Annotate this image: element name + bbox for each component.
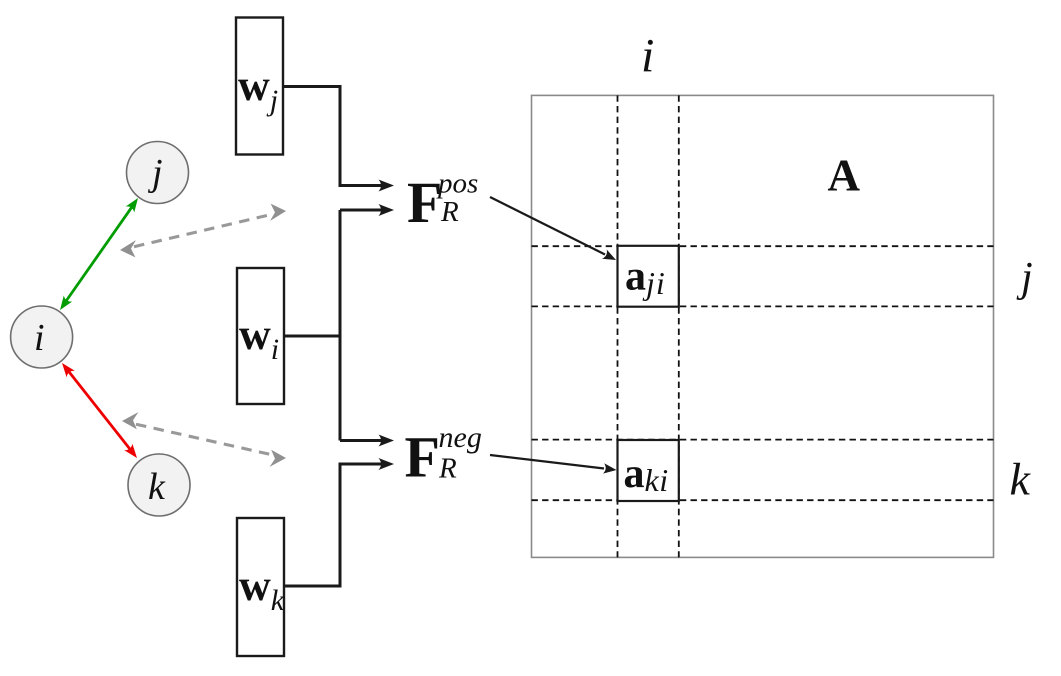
label F_R^pos	[407, 168, 478, 236]
matrix A outer border	[532, 95, 994, 557]
svg-text:pos: pos	[436, 168, 478, 200]
cell a_ji box	[618, 246, 679, 307]
green positive edge i-j double arrow	[60, 198, 138, 310]
embedding vector w_k rectangle	[237, 518, 285, 656]
svg-text:A: A	[828, 150, 861, 200]
arrowhead w_i wire to F_pos	[379, 204, 395, 216]
wire from w_k to F_neg	[284, 464, 381, 586]
arrowhead w_i wire to F_neg	[379, 435, 395, 447]
svg-text:F: F	[405, 425, 440, 490]
node j circle	[127, 142, 189, 204]
svg-text:j: j	[1016, 255, 1033, 301]
gray dashed arrow bottom (neg relation to F)	[122, 412, 286, 467]
cell a_ki box	[618, 440, 679, 501]
node i circle	[11, 306, 73, 368]
svg-text:i: i	[34, 317, 45, 359]
annotation arrow F_neg to a_ki	[490, 455, 617, 474]
node k circle	[128, 454, 190, 516]
embedding vector w_j rectangle	[236, 18, 283, 155]
svg-text:i: i	[641, 30, 654, 83]
column i dashed guides	[618, 95, 679, 557]
arrowhead w_k wire	[379, 458, 395, 470]
label F_R^neg	[405, 421, 482, 490]
annotation arrow F_pos to a_ji	[490, 197, 616, 260]
arrowhead w_j wire	[379, 180, 395, 192]
svg-text:k: k	[148, 466, 166, 508]
embedding vector w_i rectangle	[237, 268, 284, 404]
red negative edge i-k double arrow	[62, 363, 137, 458]
gray dashed arrow top (pos relation to F)	[120, 204, 286, 258]
svg-text:k: k	[1010, 454, 1032, 505]
svg-text:neg: neg	[439, 421, 482, 454]
svg-text:R: R	[440, 196, 459, 228]
row j dashed guides	[532, 246, 994, 306]
row k dashed guides	[532, 440, 994, 501]
wire from w_j to F_pos	[283, 87, 381, 186]
wire from w_i splitting to F_pos and F_neg	[284, 210, 381, 441]
svg-text:R: R	[438, 453, 457, 485]
